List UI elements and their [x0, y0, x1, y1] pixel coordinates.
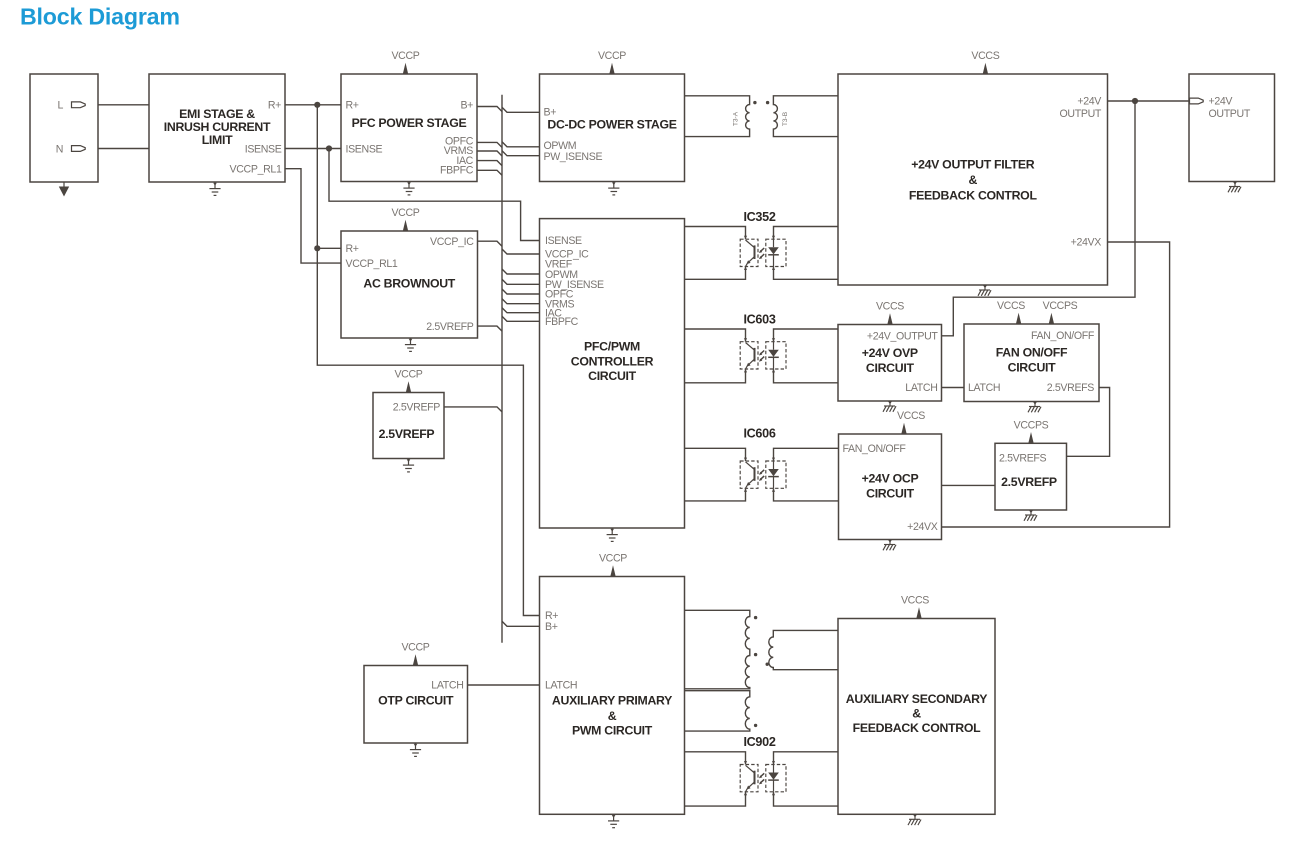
- ground below PFC: [403, 182, 414, 195]
- svg-text:OUTPUT: OUTPUT: [1209, 108, 1251, 120]
- block AC BROWNOUT: [341, 231, 478, 338]
- svg-text:B+: B+: [544, 107, 557, 119]
- ground below AC brownout: [405, 338, 416, 351]
- power flag VCCS above auxiliary secondary: [901, 595, 929, 619]
- svg-text:AUXILIARY SECONDARY: AUXILIARY SECONDARY: [846, 692, 988, 706]
- wire L input to EMI: [87, 104, 149, 106]
- power flag VCCP above PFC: [391, 50, 419, 74]
- wire IAC from PFC into bus: [477, 161, 502, 166]
- terminal N: [72, 146, 86, 152]
- wire PW_ISENSE from bus to controller: [502, 279, 540, 284]
- svg-text:VCCP: VCCP: [391, 50, 419, 62]
- svg-text:VCCP: VCCP: [401, 642, 429, 654]
- wire net +24V OUTPUT to OVP circuit: [942, 101, 1136, 336]
- wire OPFC from bus to controller: [502, 289, 540, 294]
- block +24V OVP CIRCUIT: [838, 325, 942, 402]
- svg-text:2.5VREFP: 2.5VREFP: [1001, 475, 1057, 489]
- svg-text:IC603: IC603: [743, 312, 775, 326]
- wire IC352 input top: [685, 227, 746, 240]
- svg-text:VCCS: VCCS: [897, 410, 925, 422]
- block EMI STAGE & INRUSH CURRENT LIMIT: [149, 74, 285, 182]
- ground below PFC/PWM controller: [607, 528, 618, 541]
- transformer T3-B secondary winding: [773, 96, 838, 137]
- terminal L: [72, 102, 86, 108]
- wire IC606 output bottom: [774, 488, 839, 501]
- wire OPWM from bus to controller: [502, 269, 540, 274]
- chassis ground below +24V output connector: [1228, 182, 1241, 193]
- wire IC352 output bottom: [774, 267, 839, 280]
- wire 2.5VREFP from 2.5VREFP block into bus: [444, 407, 502, 412]
- svg-text:&: &: [969, 173, 978, 187]
- wire net +24V OUTPUT filter to output connector: [1108, 100, 1190, 102]
- svg-text:&: &: [608, 709, 617, 723]
- optocoupler IC352: [740, 210, 786, 270]
- svg-text:R+: R+: [346, 243, 359, 255]
- wire net ISENSE EMI to PFC: [285, 148, 341, 150]
- svg-text:AC BROWNOUT: AC BROWNOUT: [363, 277, 455, 291]
- wire FBPFC from PFC into bus: [477, 170, 502, 175]
- wire PW_ISENSE to DC-DC from bus: [502, 151, 540, 156]
- svg-text:CIRCUIT: CIRCUIT: [866, 487, 915, 501]
- svg-text:R+: R+: [346, 100, 359, 112]
- power flag VCCP above OTP: [401, 642, 429, 666]
- svg-text:AUXILIARY PRIMARY: AUXILIARY PRIMARY: [552, 694, 672, 708]
- svg-text:+24VX: +24VX: [1071, 237, 1102, 249]
- svg-text:VCCP: VCCP: [394, 369, 422, 381]
- svg-text:N: N: [56, 143, 63, 155]
- auxiliary transformer secondary polarity dot: [766, 663, 769, 666]
- wire VCCP_IC from AC brownout into bus: [478, 241, 503, 246]
- chassis ground below auxiliary secondary: [908, 814, 921, 825]
- ground below auxiliary primary: [608, 814, 619, 827]
- svg-text:+24V OUTPUT FILTER: +24V OUTPUT FILTER: [911, 158, 1035, 172]
- wire net VCCP_RL1 EMI to AC brownout: [285, 169, 341, 263]
- wire IC606 input top: [685, 448, 746, 461]
- svg-text:FAN ON/OFF: FAN ON/OFF: [996, 346, 1068, 360]
- optocoupler IC603: [740, 312, 786, 372]
- block PFC/PWM CONTROLLER CIRCUIT: [540, 219, 685, 528]
- block DC-DC POWER STAGE: [540, 74, 685, 182]
- svg-text:+24VX: +24VX: [907, 521, 938, 533]
- power flag VCCP above DC-DC: [598, 50, 626, 74]
- svg-text:IC902: IC902: [743, 735, 775, 749]
- wire IC352 input bottom: [685, 267, 746, 280]
- auxiliary transformer primary winding 2: [685, 691, 750, 731]
- chassis ground below OCP: [883, 540, 896, 551]
- wire LATCH OTP to auxiliary primary: [468, 684, 540, 686]
- power flag VCCS above FAN circuit: [997, 300, 1025, 324]
- node junction +24V OUTPUT: [1132, 98, 1138, 104]
- power flag VCCS above output filter: [971, 50, 999, 74]
- svg-text:PWM CIRCUIT: PWM CIRCUIT: [572, 723, 653, 737]
- wire OCP circuit to 2.5VREFP block: [942, 484, 996, 486]
- block 2.5VREFP left: [373, 393, 444, 459]
- svg-text:IC352: IC352: [743, 210, 775, 224]
- svg-text:OTP CIRCUIT: OTP CIRCUIT: [378, 694, 454, 708]
- svg-text:&: &: [912, 707, 921, 721]
- transformer T3-A primary winding: [685, 96, 750, 137]
- svg-text:CONTROLLER: CONTROLLER: [571, 354, 654, 368]
- svg-text:LIMIT: LIMIT: [202, 133, 233, 147]
- svg-text:2.5VREFP: 2.5VREFP: [393, 402, 441, 414]
- block AUXILIARY PRIMARY & PWM CIRCUIT: [540, 577, 685, 815]
- transformer T3-A polarity dot: [753, 101, 756, 104]
- svg-text:ISENSE: ISENSE: [346, 144, 383, 156]
- svg-text:DC-DC POWER STAGE: DC-DC POWER STAGE: [547, 118, 676, 132]
- node junction R+ at AC brownout: [314, 245, 320, 251]
- svg-text:VCCS: VCCS: [876, 301, 904, 313]
- svg-text:FBPFC: FBPFC: [440, 165, 474, 177]
- earth ground arrow below AC input: [59, 182, 69, 197]
- optocoupler IC902: [740, 735, 786, 795]
- svg-text:CIRCUIT: CIRCUIT: [1008, 361, 1057, 375]
- wire N input to EMI: [87, 148, 149, 150]
- wire IC606 input bottom: [685, 488, 746, 501]
- chassis ground below OVP: [883, 401, 896, 412]
- wire IC902 output top: [774, 752, 839, 765]
- wire IC352 output top: [774, 227, 839, 240]
- svg-text:PFC/PWM: PFC/PWM: [584, 339, 640, 353]
- svg-text:VCCS: VCCS: [901, 595, 929, 607]
- chassis ground below FAN circuit: [1028, 402, 1041, 413]
- optocoupler IC606: [740, 427, 786, 492]
- power flag VCCS above OVP: [876, 301, 904, 325]
- svg-text:FAN_ON/OFF: FAN_ON/OFF: [1031, 330, 1095, 342]
- svg-text:LATCH: LATCH: [968, 382, 1000, 394]
- ground below 2.5VREFP left: [403, 459, 414, 472]
- svg-text:FBPFC: FBPFC: [545, 316, 579, 328]
- wire net R+ branch to AC brownout: [317, 247, 341, 249]
- wire B+ to DC-DC from bus: [502, 107, 540, 112]
- svg-text:2.5VREFS: 2.5VREFS: [999, 453, 1047, 465]
- svg-text:VCCPS: VCCPS: [1014, 419, 1049, 431]
- wire IC603 input bottom: [685, 369, 746, 383]
- svg-text:ISENSE: ISENSE: [245, 144, 282, 156]
- wire IC606 output top: [774, 448, 839, 461]
- wire VRMS from PFC into bus: [477, 151, 502, 156]
- block OTP CIRCUIT: [364, 666, 468, 744]
- auxiliary transformer primary winding 1: [685, 610, 750, 689]
- wire IC902 input bottom: [685, 792, 746, 806]
- svg-text:PW_ISENSE: PW_ISENSE: [544, 151, 603, 163]
- ground below DC-DC: [608, 182, 619, 195]
- svg-text:VCCP: VCCP: [599, 553, 627, 565]
- svg-text:VCCP: VCCP: [598, 50, 626, 62]
- transformer T3-B polarity dot: [766, 101, 769, 104]
- wire net LATCH OVP to FAN circuit: [942, 387, 965, 389]
- power flag VCCP above 2.5VREFP left: [394, 369, 422, 393]
- svg-text:FEEDBACK CONTROL: FEEDBACK CONTROL: [909, 189, 1038, 203]
- wire IC902 output bottom: [774, 792, 839, 806]
- svg-text:T3-A: T3-A: [733, 111, 740, 126]
- wire IC603 input top: [685, 329, 746, 342]
- block 2.5VREFP right: [995, 443, 1067, 510]
- svg-text:VCCS: VCCS: [971, 50, 999, 62]
- svg-text:VCCPS: VCCPS: [1043, 300, 1078, 312]
- auxiliary transformer winding1 polarity dot top: [754, 616, 757, 619]
- block +24V OCP CIRCUIT: [839, 434, 942, 540]
- power flag VCCP above AC brownout: [391, 207, 419, 231]
- svg-text:B+: B+: [545, 621, 558, 633]
- svg-text:+24V: +24V: [1209, 96, 1234, 108]
- wire OPWM to DC-DC from bus: [502, 142, 540, 147]
- wire FBPFC from bus to controller: [502, 316, 540, 321]
- svg-text:+24V OCP: +24V OCP: [862, 472, 919, 486]
- svg-text:PFC POWER STAGE: PFC POWER STAGE: [352, 116, 467, 130]
- AC input connector block: [30, 74, 98, 182]
- node junction R+ top: [314, 102, 320, 108]
- power flag VCCS above OCP: [897, 410, 925, 434]
- svg-text:LATCH: LATCH: [545, 679, 577, 691]
- svg-text:R+: R+: [545, 610, 558, 622]
- power flag VCCPS above FAN circuit: [1043, 300, 1078, 324]
- svg-text:VCCP: VCCP: [391, 207, 419, 219]
- svg-text:VCCP_RL1: VCCP_RL1: [230, 163, 282, 175]
- wire IC902 input top: [685, 752, 746, 765]
- wire VRMS from bus to controller: [502, 299, 540, 304]
- block FAN ON/OFF CIRCUIT: [964, 324, 1099, 402]
- wire net +24VX filter to OCP circuit: [942, 242, 1170, 527]
- wire OPFC from PFC into bus: [477, 142, 502, 147]
- auxiliary transformer winding2 polarity dot: [754, 724, 757, 727]
- wire IC603 output bottom: [774, 369, 839, 383]
- wire B+ from bus to auxiliary primary: [502, 621, 540, 626]
- svg-text:2.5VREFP: 2.5VREFP: [426, 321, 474, 333]
- wire net R+ vertical trunk to AC brownout and auxiliary primary: [317, 105, 539, 616]
- auxiliary transformer secondary winding: [769, 630, 838, 669]
- wire net R+ EMI to PFC: [285, 104, 341, 106]
- wire 2.5VREFP from AC brownout into bus: [478, 326, 503, 331]
- svg-text:+24V OVP: +24V OVP: [862, 346, 918, 360]
- wire net ISENSE to PFC/PWM controller: [329, 149, 540, 241]
- wire IAC from bus to controller: [502, 308, 540, 313]
- power flag VCCPS above 2.5VREFP right: [1014, 419, 1049, 443]
- svg-text:B+: B+: [460, 100, 473, 112]
- svg-text:2.5VREFS: 2.5VREFS: [1047, 382, 1095, 394]
- svg-text:+24V: +24V: [1077, 96, 1102, 108]
- power flag VCCP above auxiliary primary: [599, 553, 627, 577]
- svg-text:2.5VREFP: 2.5VREFP: [379, 427, 435, 441]
- wire IC603 output top: [774, 329, 839, 342]
- svg-text:EMI STAGE &: EMI STAGE &: [179, 107, 255, 121]
- svg-text:LATCH: LATCH: [905, 382, 937, 394]
- svg-text:FAN_ON/OFF: FAN_ON/OFF: [843, 443, 907, 455]
- svg-text:VCCP_IC: VCCP_IC: [430, 236, 474, 248]
- svg-text:CIRCUIT: CIRCUIT: [866, 361, 915, 375]
- block AUXILIARY SECONDARY & FEEDBACK CONTROL: [838, 619, 995, 815]
- svg-text:R+: R+: [268, 100, 281, 112]
- node junction ISENSE: [326, 145, 332, 151]
- ground below EMI block: [209, 182, 220, 195]
- svg-text:+24V_OUTPUT: +24V_OUTPUT: [867, 330, 939, 342]
- wire VCCP_IC from bus to controller: [502, 249, 540, 254]
- block +24V OUTPUT connector: [1189, 74, 1275, 182]
- svg-text:L: L: [57, 100, 63, 112]
- svg-text:VCCP_RL1: VCCP_RL1: [346, 258, 398, 270]
- ground below OTP: [410, 743, 421, 756]
- block PFC POWER STAGE: [341, 74, 477, 182]
- svg-text:FEEDBACK CONTROL: FEEDBACK CONTROL: [853, 721, 982, 735]
- svg-text:T3-B: T3-B: [782, 111, 789, 126]
- svg-text:CIRCUIT: CIRCUIT: [588, 369, 637, 383]
- svg-text:VCCS: VCCS: [997, 300, 1025, 312]
- svg-text:OUTPUT: OUTPUT: [1060, 108, 1102, 120]
- wire signal bus trunk: [501, 95, 503, 643]
- svg-text:ISENSE: ISENSE: [545, 235, 582, 247]
- chassis ground below output filter: [978, 285, 991, 296]
- block +24V OUTPUT FILTER & FEEDBACK CONTROL: [838, 74, 1108, 285]
- svg-text:LATCH: LATCH: [431, 679, 463, 691]
- auxiliary transformer winding1 polarity dot mid: [754, 653, 757, 656]
- wire net 2.5VREFS FAN circuit to 2.5VREFP block: [1067, 388, 1110, 457]
- chassis ground below 2.5VREFP right: [1024, 510, 1037, 521]
- svg-text:IC606: IC606: [743, 427, 775, 441]
- svg-text:INRUSH CURRENT: INRUSH CURRENT: [164, 120, 271, 134]
- wire B+ from PFC into bus: [477, 107, 502, 112]
- svg-text:Block Diagram: Block Diagram: [20, 4, 180, 30]
